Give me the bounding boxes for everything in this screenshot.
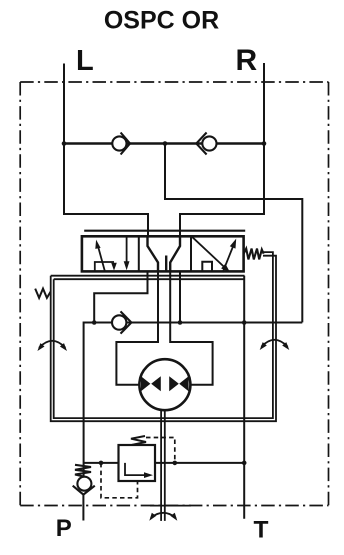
motor bowtie left [141, 376, 161, 391]
pilot line dashed left [101, 463, 138, 498]
inlet check valve CV4 [73, 477, 95, 495]
valve left position: up arrow [95, 240, 105, 271]
wire motor feed left [116, 271, 158, 384]
node L-rail junction [62, 141, 67, 146]
valve right position: crossed arrows [192, 237, 236, 272]
wire P branch vertical [83, 322, 85, 478]
node T junction [242, 461, 247, 466]
wire R port vertical [180, 63, 264, 237]
funnel throat drain [165, 256, 167, 272]
wire T line vertical [243, 276, 245, 519]
node junction T line [242, 320, 247, 325]
tank rail upper [51, 275, 245, 277]
wire relief right port to T [155, 462, 244, 464]
node mid-rail junction [163, 141, 168, 146]
wire valve bottom port to P branch [94, 271, 147, 322]
svg-text:OSPC OR: OSPC OR [104, 7, 219, 35]
inlet check valve spring [75, 465, 91, 477]
node R-rail junction [262, 141, 267, 146]
valve left centering spring W [35, 289, 51, 298]
valve divider left [138, 236, 140, 271]
node pilot junction right [173, 461, 178, 466]
valve right position: blocked port [202, 262, 212, 272]
relief valve internal arrow [125, 463, 153, 478]
svg-text:P: P [56, 515, 72, 542]
wire top check-valve rail [64, 142, 264, 144]
steering column double line [160, 410, 162, 521]
wire P port stub [82, 495, 84, 521]
svg-text:T: T [254, 517, 269, 544]
valve left position: shelf with down arrow [95, 262, 117, 271]
mechanical link outer U [51, 256, 276, 422]
check valve CV2 (right, opens left) [196, 133, 216, 155]
tank rail lower [54, 278, 245, 280]
wire motor feed right [170, 271, 212, 384]
valve main box U1 [82, 236, 244, 271]
rotation arrow right [260, 340, 290, 350]
relief valve spring [131, 436, 146, 445]
wire mid-rail to right side down to LP rail [165, 144, 302, 323]
valve centre position: open-centre funnel [148, 236, 159, 271]
relief valve RV1 box [119, 445, 156, 481]
node junction valve drain [178, 320, 183, 325]
mechanical link inner U [54, 252, 273, 418]
valve right centering spring [244, 249, 264, 260]
check valve CV1 (left, opens right) [112, 133, 130, 155]
steering wheel [149, 506, 191, 521]
check valve CV3 (opens right) [112, 311, 131, 333]
wire line above valve [84, 230, 245, 232]
valve divider right [190, 236, 192, 271]
pilot line dashed top [146, 438, 175, 463]
node pilot junction left [99, 461, 104, 466]
metering motor M1 [139, 359, 190, 410]
rotation arrow left [37, 341, 67, 351]
svg-text:R: R [236, 44, 258, 77]
valve left position: straight down arrow [124, 236, 130, 270]
motor bowtie right [169, 376, 188, 391]
svg-text:L: L [76, 45, 94, 77]
boundary dash-dot enclosure [20, 82, 328, 506]
wire relief left port [84, 462, 119, 464]
node junction P-branch vert [92, 320, 97, 325]
wire L port vertical [64, 64, 148, 237]
LP rail with small check valve [84, 322, 303, 324]
wire valve bottom port R to LP rail [179, 271, 181, 322]
